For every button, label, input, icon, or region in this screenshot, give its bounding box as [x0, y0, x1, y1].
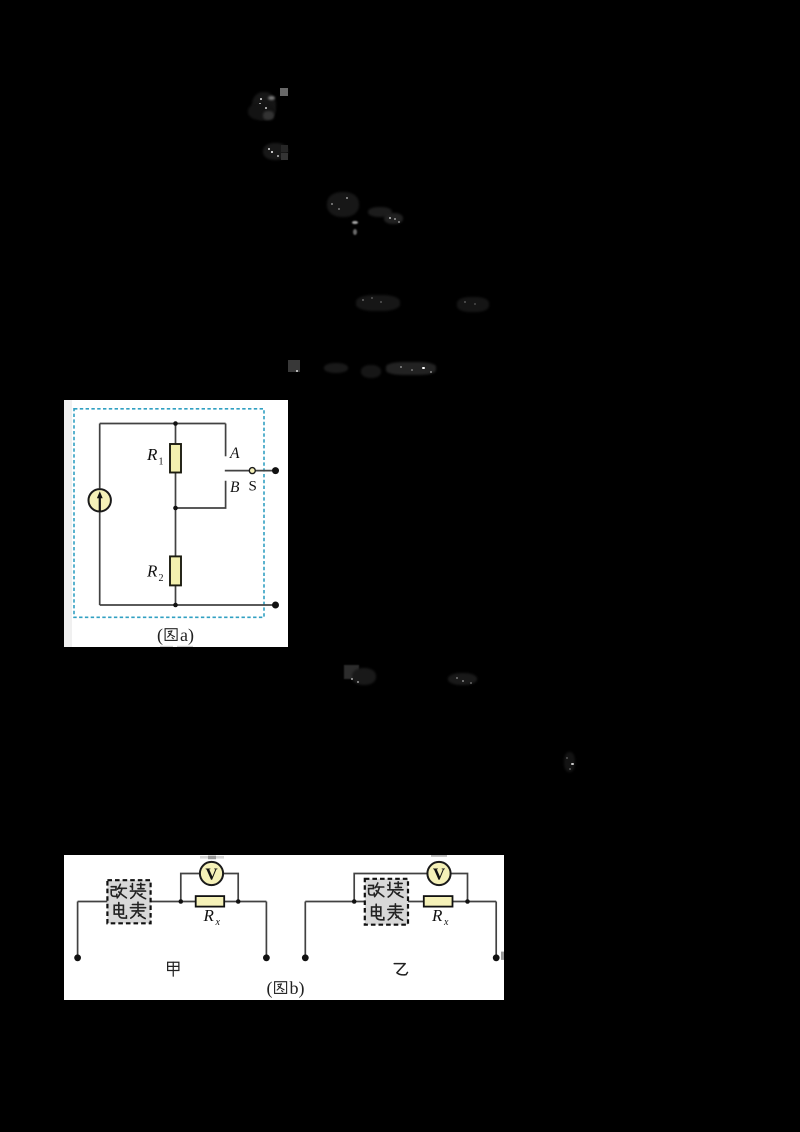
terminal 乙 right	[493, 954, 500, 961]
svg-text:a): a)	[180, 625, 194, 646]
label 甲	[168, 962, 179, 976]
svg-text:2: 2	[159, 573, 164, 584]
svg-text:R: R	[431, 906, 443, 925]
resistor R2	[170, 556, 181, 585]
wire top rail	[100, 423, 226, 425]
wire bottom rail	[100, 604, 276, 606]
smudge above V meter 甲	[200, 856, 224, 859]
node bottom	[173, 603, 178, 608]
node mid	[173, 506, 178, 511]
svg-text:R: R	[146, 445, 158, 464]
wire switch	[225, 470, 276, 472]
caption underline remnants	[160, 646, 173, 647]
label 乙	[394, 964, 407, 975]
svg-text:(: (	[267, 978, 273, 999]
svg-text:B: B	[230, 479, 240, 496]
wire 乙 left terminal drop	[304, 902, 306, 958]
svg-text:V: V	[205, 865, 218, 884]
svg-text:x: x	[443, 917, 449, 928]
dashed boundary box	[74, 409, 264, 618]
terminal 乙 left	[302, 954, 309, 961]
svg-text:R: R	[203, 906, 215, 925]
wire left branch	[99, 424, 101, 606]
resistor Rx 乙	[424, 896, 453, 907]
svg-text:S: S	[249, 479, 257, 495]
resistor Rx 甲	[196, 896, 225, 907]
svg-text:V: V	[433, 865, 446, 884]
smudge cluster 7	[564, 752, 575, 772]
left edge shading	[64, 400, 72, 647]
terminal 甲 right	[263, 954, 270, 961]
resistor R1	[170, 444, 181, 473]
node 甲 left	[179, 899, 184, 904]
wire center branch	[175, 424, 177, 606]
smudge cluster 2	[263, 143, 288, 160]
wire 乙 voltmeter branch	[354, 874, 467, 902]
wire 乙 right terminal drop	[495, 902, 497, 958]
smudge cluster 6	[344, 665, 359, 679]
meter box 改装电表 乙	[365, 879, 408, 925]
smudge cluster 1 blobs	[252, 92, 276, 120]
smudge right edge	[501, 952, 504, 960]
svg-text:1: 1	[159, 457, 164, 468]
node 乙 right	[465, 899, 470, 904]
smudge cluster 1 gray square	[280, 88, 288, 96]
smudge cluster 5 equation row	[288, 360, 300, 372]
wire 甲 voltmeter branch	[181, 874, 238, 902]
terminal lower	[272, 602, 279, 609]
voltmeter V 甲	[200, 862, 223, 885]
wire 甲 left terminal drop	[77, 902, 79, 958]
smudge cluster 4	[356, 295, 400, 311]
current source	[89, 489, 111, 511]
wire B branch	[176, 481, 226, 508]
switch S pivot circle	[249, 468, 255, 474]
smudge cluster 3	[327, 192, 359, 217]
shared CJK glyph symbol defs	[0, 0, 4, 4]
svg-text:b): b)	[290, 978, 305, 999]
node 甲 right	[236, 899, 241, 904]
terminal 甲 left	[74, 954, 81, 961]
wire 乙 main rail	[305, 901, 496, 903]
wire 甲 main rail	[78, 901, 267, 903]
svg-text:R: R	[146, 562, 158, 581]
wire 甲 right terminal drop	[265, 902, 267, 958]
voltmeter V 乙	[427, 862, 450, 885]
wire A branch	[225, 424, 227, 457]
node top	[173, 421, 178, 426]
node 乙 left	[352, 899, 357, 904]
terminal upper	[272, 467, 279, 474]
smudge above V meter 乙	[431, 855, 447, 857]
svg-text:x: x	[215, 917, 221, 928]
svg-text:(: (	[157, 625, 163, 646]
meter box 改装电表 甲	[107, 880, 150, 923]
svg-text:A: A	[229, 445, 240, 462]
